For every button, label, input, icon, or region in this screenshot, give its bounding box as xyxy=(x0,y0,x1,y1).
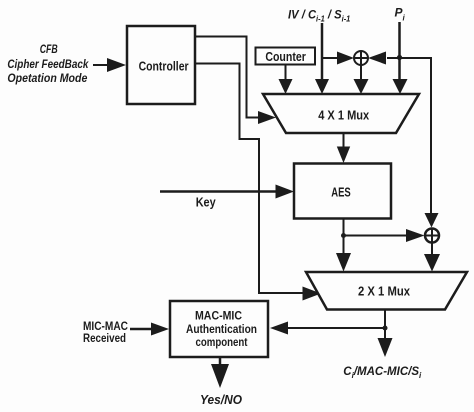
svg-text:MIC-MAC: MIC-MAC xyxy=(83,321,128,333)
wire: Key to AES xyxy=(160,185,294,199)
wire: Controller to 2x1 Mux select xyxy=(195,64,321,301)
svg-text:Key: Key xyxy=(196,196,216,210)
block Counter xyxy=(256,48,316,65)
svg-text:Yes/NO: Yes/NO xyxy=(200,392,242,407)
label IV / Ci-1 / Si-1 xyxy=(288,8,350,23)
svg-text:Controller: Controller xyxy=(139,59,189,74)
wire: Controller to 4x1 Mux select xyxy=(195,37,276,125)
wire: output to MAC-MIC component xyxy=(270,322,385,335)
wire: Pi input to 4x1 Mux xyxy=(393,22,408,94)
wire: Counter to 4x1 Mux xyxy=(279,65,293,95)
block MAC-MIC Authentication component xyxy=(170,301,268,357)
junction on Pi line xyxy=(397,55,402,60)
block 4x1 Mux xyxy=(263,94,419,133)
xor XOR1 xyxy=(354,51,368,65)
svg-text:component: component xyxy=(196,337,248,349)
wire: 2x1 Mux output trunk xyxy=(384,310,386,329)
wire: component to Yes/NO xyxy=(211,357,229,388)
block AES xyxy=(294,164,391,219)
svg-text:Ci/MAC-MIC/Si: Ci/MAC-MIC/Si xyxy=(343,366,422,380)
junction on AES output xyxy=(341,233,346,238)
wire: Pi to XOR2 xyxy=(400,58,439,228)
svg-text:MAC-MIC: MAC-MIC xyxy=(195,311,242,323)
svg-text:Cipher FeedBack: Cipher FeedBack xyxy=(7,57,89,71)
svg-text:Opetation Mode: Opetation Mode xyxy=(7,71,87,85)
wire: IV branch to XOR1 xyxy=(322,52,354,65)
wire: AES output to 2x1 Mux xyxy=(336,219,351,272)
wire: IV input to 4x1 Mux xyxy=(315,23,329,94)
svg-text:AES: AES xyxy=(331,185,351,200)
xor XOR2 xyxy=(425,229,439,243)
svg-text:Received: Received xyxy=(83,333,126,345)
junction on output trunk xyxy=(383,326,388,331)
wire: 4x1 Mux to AES xyxy=(337,133,350,163)
wire: MIC-MAC Received to component xyxy=(130,323,169,336)
svg-text:Counter: Counter xyxy=(265,50,306,64)
wire: output down arrow to Ci label xyxy=(378,328,393,357)
wire: XOR2 output to 2x1 Mux xyxy=(424,243,440,272)
svg-text:2 X 1 Mux: 2 X 1 Mux xyxy=(358,285,410,299)
svg-text:CFB: CFB xyxy=(40,42,58,56)
label MIC-MAC Received xyxy=(83,321,128,345)
block 2x1 Mux xyxy=(306,272,467,310)
wire: AES branch to XOR2 xyxy=(344,229,425,242)
svg-text:Authentication: Authentication xyxy=(186,324,257,336)
label CFB Cipher FeedBack Opetation Mode xyxy=(7,42,89,85)
svg-text:4 X 1 Mux: 4 X 1 Mux xyxy=(318,109,369,123)
wire: XOR1 output to 4x1 Mux xyxy=(354,65,369,94)
wire: Pi branch to XOR1 xyxy=(368,52,400,65)
wire: CFB label to Controller xyxy=(93,58,126,72)
block Controller xyxy=(127,26,195,104)
